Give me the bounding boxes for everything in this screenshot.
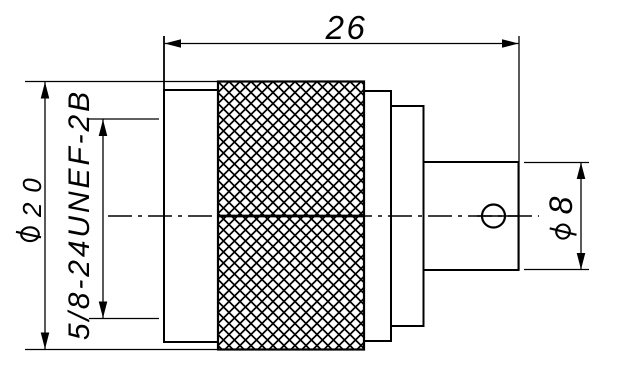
dim phi20 phi symbol circle — [21, 227, 39, 241]
dim phi20 extension line top — [25, 81, 218, 83]
dim phi8 dimension line — [580, 162, 582, 270]
svg-text:0: 0 — [17, 178, 47, 193]
dim 26 extension line left — [163, 36, 165, 90]
dim phi20 arrow bottom — [41, 333, 50, 350]
dim 26 arrow left — [165, 39, 182, 48]
dim phi8 phi symbol bar — [550, 228, 577, 235]
dim phi8 arrow bottom — [577, 253, 586, 270]
svg-text:2: 2 — [17, 202, 47, 218]
hole circle — [482, 205, 505, 228]
dim phi8 phi symbol circle — [556, 225, 570, 239]
dim thread dimension line — [102, 119, 104, 319]
dim phi8 arrow top — [577, 163, 586, 180]
dim phi20 dimension line — [44, 82, 46, 350]
knurled section (cross hatch) — [218, 82, 364, 350]
dim phi8 extension line bottom — [524, 269, 589, 271]
dim phi20 arrow top — [41, 82, 50, 99]
dim thread arrow bottom — [99, 302, 108, 319]
dim phi20 extension line bottom — [25, 349, 218, 351]
dim 26 dimension line — [164, 43, 519, 45]
body back nut section — [164, 90, 218, 342]
svg-text:26: 26 — [325, 9, 368, 46]
center line across knurl — [218, 215, 364, 218]
dim 26 arrow right — [502, 39, 519, 48]
dim thread arrow top — [99, 120, 108, 137]
body step section A — [364, 91, 391, 341]
svg-text:8: 8 — [543, 196, 579, 214]
dim phi20 phi symbol bar — [16, 232, 41, 238]
center line (dash-dot axis) — [108, 215, 539, 217]
center line through hole — [477, 215, 518, 217]
dim thread extension line bottom — [89, 318, 159, 320]
body step section B — [391, 106, 424, 326]
dim phi8 extension line top — [524, 162, 589, 164]
front cylinder (phi 8) — [424, 162, 519, 270]
dim thread extension line top — [89, 118, 159, 120]
svg-text:5/8-24UNEF-2B: 5/8-24UNEF-2B — [63, 89, 96, 340]
dim 26 extension line right — [518, 36, 520, 270]
